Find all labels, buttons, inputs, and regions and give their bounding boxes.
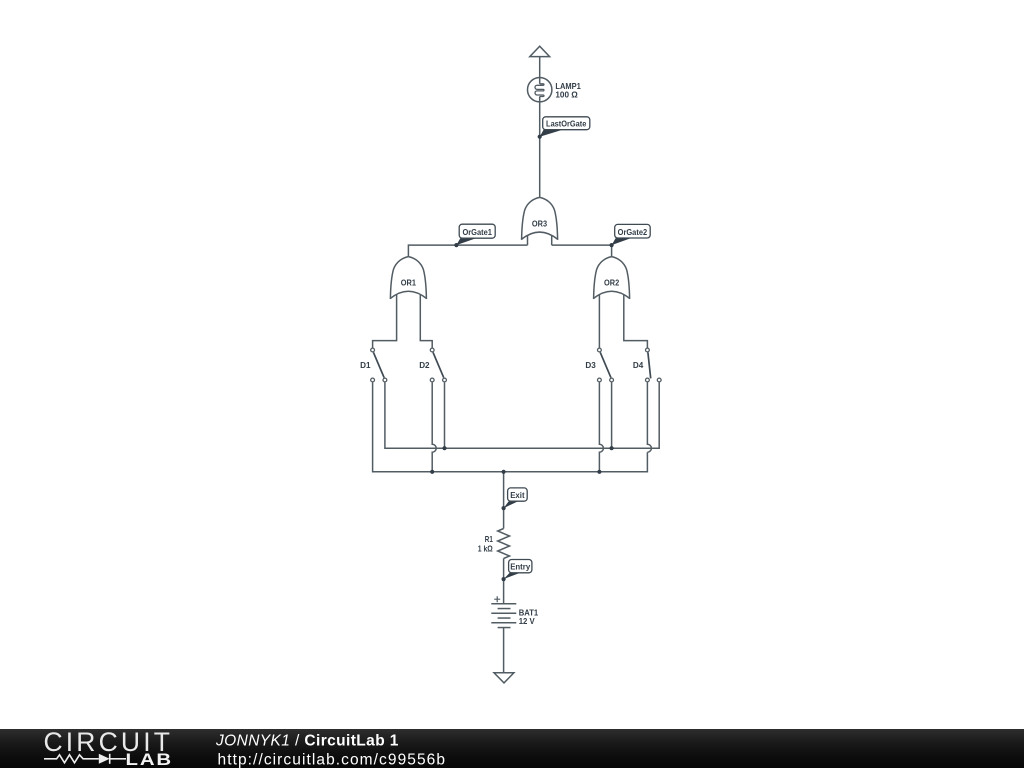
wire: OR3 right input to OR2 [552, 245, 612, 257]
svg-text:OR2: OR2 [604, 278, 619, 288]
bus wire A [385, 382, 659, 448]
lamp filament coil [535, 84, 544, 97]
wires below switches [432, 382, 436, 472]
svg-text:Exit: Exit [510, 490, 525, 500]
junction dots [430, 135, 614, 582]
OR1 gate [390, 257, 427, 299]
wire: battery to ground [503, 628, 505, 673]
svg-text:OrGate1: OrGate1 [462, 227, 492, 237]
switch D2 terminals [430, 348, 434, 352]
switch D3 terminals [598, 348, 602, 352]
blade D2 [433, 352, 444, 377]
OR1 input wires [373, 290, 397, 348]
OR2 gate [593, 257, 630, 299]
flag Entry [504, 560, 532, 580]
flag OrGate1 [456, 224, 495, 245]
svg-text:Entry: Entry [510, 562, 530, 572]
wire: lamp column [539, 57, 541, 84]
svg-text:D2: D2 [419, 360, 430, 370]
blade D1 [373, 352, 384, 377]
blade D3 [600, 352, 611, 377]
svg-text:OrGate2: OrGate2 [618, 227, 648, 237]
OR2 input wires [598, 290, 600, 348]
resistor R1 zigzag [498, 529, 510, 559]
ground symbol [494, 673, 514, 683]
logo resistor-diode glyph [44, 755, 99, 763]
svg-text:R1: R1 [485, 534, 493, 544]
power flag arrow [530, 46, 550, 56]
svg-text:OR1: OR1 [401, 278, 416, 288]
CircuitLab logo and footer text [0, 729, 1024, 768]
battery BAT1 plates [491, 603, 516, 605]
switch blades [373, 352, 650, 378]
flag LastOrGate [540, 117, 590, 137]
svg-text:D3: D3 [585, 360, 596, 370]
flag Exit [504, 488, 528, 508]
wire: OR3 left input to OR1 [408, 245, 527, 257]
lamp LAMP1 circle [528, 78, 552, 102]
flag OrGate2 [612, 224, 651, 245]
switch D4 terminals [646, 348, 650, 352]
OR3 input stubs [527, 233, 529, 245]
OR3 gate [521, 197, 558, 239]
svg-text:12 V: 12 V [519, 616, 535, 626]
svg-text:JONNYK1 / CircuitLab 1: JONNYK1 / CircuitLab 1 [215, 733, 399, 750]
svg-text:OR3: OR3 [532, 218, 547, 228]
svg-text:100 Ω: 100 Ω [555, 90, 578, 100]
wire: resistor to battery [503, 559, 505, 604]
svg-text:LastOrGate: LastOrGate [546, 119, 586, 129]
svg-text:1 kΩ: 1 kΩ [478, 544, 493, 554]
svg-text:D4: D4 [633, 360, 644, 370]
svg-text:D1: D1 [360, 360, 371, 370]
svg-text:LAB: LAB [126, 751, 174, 768]
wire: center tap down to resistor [503, 472, 505, 529]
svg-text:http://circuitlab.com/c99556b: http://circuitlab.com/c99556b [218, 752, 446, 768]
footer bar [0, 729, 1024, 768]
blade D4 [648, 352, 651, 378]
bus wire B [373, 382, 648, 472]
switch D1 terminals [371, 348, 661, 382]
component labels [360, 81, 643, 626]
battery plus sign [494, 596, 500, 602]
